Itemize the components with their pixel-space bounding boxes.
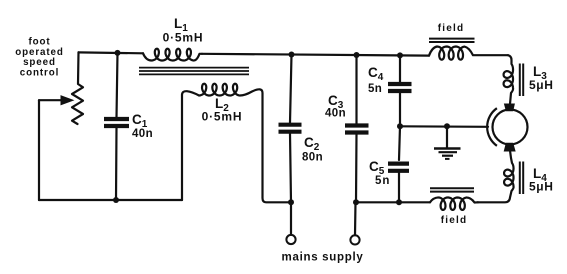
capacitor C2 [290,55,292,123]
junction node C3 bottom [353,199,359,205]
svg-text:0·5mH: 0·5mH [202,110,243,124]
svg-text:0·5mH: 0·5mH [163,31,204,45]
motor brush top [505,104,515,111]
capacitor C5 [399,126,400,160]
field coil bottom [430,197,478,209]
svg-text:control: control [20,67,60,78]
junction node C4-C5 middle [397,123,403,129]
junction node C2 top [289,52,295,58]
junction node C5 bottom [396,199,402,205]
svg-text:5μH: 5μH [529,180,553,194]
motor stator arc [487,108,497,146]
motor brush bottom [504,143,515,151]
core lines L3 [519,64,521,97]
inductor L2 coil and leads [182,84,292,203]
junction node C1 bottom [113,197,119,203]
mains terminal 1 stub [290,202,292,235]
junction node C3 top [354,52,360,58]
svg-text:mains supply: mains supply [282,252,364,264]
motor armature circle [493,110,528,145]
capacitor C3 [355,55,357,123]
wire bottom-left rail [39,199,182,201]
inductor L1 coil [143,49,202,61]
core lines L4 [519,162,521,195]
ground symbol [446,126,448,147]
svg-text:40n: 40n [132,128,153,140]
wire middle rail to motor [400,125,488,128]
svg-text:field: field [438,23,465,34]
wire wiper-left vertical [38,100,40,200]
junction node top-left [115,50,121,56]
core lines (L1/L2 common core) [139,67,249,69]
wiper arrow of R1 [39,99,63,101]
junction node ground tap [444,123,450,129]
mains terminal 2 circle [350,235,359,244]
capacitor C1 [117,53,118,118]
core lines field top [429,38,475,40]
junction node C2 bottom [288,199,294,205]
inductor L4 coil and leads [478,151,514,203]
junction node C4 top [397,52,403,58]
resistor R1 zigzag (speed control rheostat) [72,52,83,124]
inductor L3 coil and leads [504,55,513,104]
core lines field bottom [430,187,474,189]
svg-text:40n: 40n [325,108,346,120]
field coil top [429,47,508,60]
svg-text:5μH: 5μH [529,78,553,92]
svg-text:5n: 5n [368,83,382,95]
mains terminal 2 stub [354,202,357,235]
mains terminal 1 circle [286,235,295,244]
wire top rail left segment [79,51,144,54]
svg-text:80n: 80n [302,152,323,164]
wire bottom-right rail [356,201,430,203]
wire top rail right segment [202,54,429,56]
capacitor C4 [399,55,401,82]
svg-text:field: field [441,215,468,226]
svg-text:5n: 5n [375,175,390,187]
